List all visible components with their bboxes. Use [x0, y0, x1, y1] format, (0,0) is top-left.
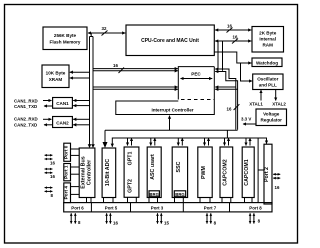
XBUS tap from 32 bus: [90, 34, 92, 37]
CAPCOM2 label: [222, 159, 228, 186]
Port 6 pin count 8: [78, 220, 81, 225]
bus pair2: XBUS to PEC left y87: [93, 86, 178, 88]
stub linking bus lines: [226, 130, 228, 138]
XTAL2 label: [272, 102, 286, 107]
svg-text:and PLL: and PLL: [259, 83, 277, 88]
CPU label: [141, 38, 199, 44]
PEC box: [178, 67, 214, 100]
Port 8 label: [249, 206, 262, 211]
ASC box: [147, 147, 161, 198]
svg-text:Port 8: Port 8: [249, 206, 262, 211]
CAN2_TXD arrow: [44, 124, 53, 126]
tap from RAM bus down b: [222, 42, 224, 71]
PWM box: [198, 147, 212, 198]
ASC BRG label: [149, 192, 159, 197]
svg-text:External Bus: External Bus: [80, 156, 86, 188]
CAN1_TXD arrow: [44, 105, 53, 107]
PWM label: [201, 165, 207, 179]
Port 2 pins symbol: [273, 174, 280, 178]
Port 6 label: [71, 206, 84, 211]
port row divider 3/7: [182, 203, 184, 212]
Port 1 pins symbol: [45, 169, 53, 173]
wire: CAN2 to XBUS lower: [73, 124, 89, 126]
Port 0 to EBC connectors: [71, 149, 80, 155]
svg-text:RAM: RAM: [262, 43, 273, 48]
Port 7 label: [204, 206, 217, 211]
Port 0 box: [64, 143, 71, 161]
voltage regulator box: [256, 109, 287, 126]
Port 3 label: [151, 206, 164, 211]
svg-text:16: 16: [50, 174, 55, 179]
flash memory box: [43, 27, 87, 50]
port row divider 6/5: [90, 203, 92, 212]
ADC label: [105, 159, 111, 187]
XTAL1 label: [249, 102, 263, 107]
bus pair: XBUS to PEC left lower: [93, 70, 178, 72]
svg-text:CAN1: CAN1: [56, 101, 69, 106]
PEC dashed divider: [181, 99, 214, 101]
tick lower: [232, 39, 238, 44]
wire: PEC right lower a: [215, 86, 236, 88]
svg-text:16: 16: [227, 24, 232, 29]
svg-text:Regulator: Regulator: [260, 118, 282, 123]
svg-text:10-Bit ADC: 10-Bit ADC: [105, 159, 111, 187]
SSC label: [176, 161, 182, 172]
peripheral bus lower line: [112, 138, 266, 147]
internal RAM label: [259, 31, 277, 48]
internal RAM box: [252, 27, 284, 53]
wire: CPU to watchdog: [214, 52, 251, 63]
CAPCOM1 to Port8 stubs: [245, 198, 253, 203]
svg-text:15: 15: [164, 221, 169, 226]
tick 16 on right vertical bus: [234, 104, 240, 110]
16 label lower: [233, 35, 238, 40]
svg-text:BRG: BRG: [149, 192, 159, 197]
GPT to ports stubs: [128, 197, 137, 203]
svg-text:Port 5: Port 5: [105, 206, 118, 211]
ports row box: [64, 203, 272, 212]
svg-text:GPT1: GPT1: [128, 152, 134, 166]
svg-text:ASC usart: ASC usart: [150, 154, 156, 180]
EBC label: [80, 156, 92, 188]
svg-text:BRG: BRG: [175, 192, 185, 197]
SSC to Port3 stubs: [175, 198, 184, 203]
svg-text:Interrupt Controller: Interrupt Controller: [151, 107, 193, 112]
svg-text:GPT2: GPT2: [128, 179, 134, 193]
port row divider 7/8: [229, 203, 231, 212]
32 label: [102, 26, 107, 31]
connector pair GPT: [128, 138, 132, 146]
svg-text:Internal: Internal: [259, 37, 276, 42]
svg-text:32: 32: [102, 26, 107, 31]
big arrow into ADC: [103, 130, 108, 148]
tick 16 on XBUS-PEC pair: [119, 68, 125, 74]
wire: CAN2 to XBUS upper: [73, 118, 89, 120]
CAN2 box: [53, 117, 73, 128]
svg-text:16: 16: [233, 35, 238, 40]
ADC to Port5 stubs: [104, 198, 114, 203]
svg-text:Port 2: Port 2: [264, 167, 270, 182]
CAN1_RXD label: [14, 99, 38, 104]
interrupt controller label: [151, 107, 193, 112]
svg-text:Port 7: Port 7: [204, 206, 217, 211]
Port 7 pin count 8: [214, 221, 217, 226]
svg-text:CAN2_TXD: CAN2_TXD: [14, 123, 37, 128]
svg-text:XTAL2: XTAL2: [272, 102, 286, 107]
svg-text:10K Byte: 10K Byte: [46, 71, 66, 76]
wire: PEC right upper pair b: [215, 72, 237, 130]
connector pair CAPCOM2: [225, 138, 229, 146]
connector pair CAPCOM1: [246, 138, 250, 146]
CAN2_RXD label: [14, 117, 38, 122]
PEC label: [191, 72, 201, 77]
connector pair ASC: [151, 138, 155, 146]
port row divider 5/3: [130, 203, 132, 212]
3.3V label: [241, 117, 251, 122]
Port 5 pins symbol: [107, 213, 111, 223]
EBC to Port6 stubs: [87, 198, 92, 203]
CAN1_RXD arrow: [43, 100, 52, 102]
svg-text:XRAM: XRAM: [49, 77, 63, 82]
ADC box: [102, 148, 116, 198]
svg-text:Watchdog: Watchdog: [256, 61, 278, 66]
XRAM box: [42, 65, 69, 88]
wire: CAN1 to XBUS lower: [73, 105, 89, 107]
16 label XBUS-PEC: [113, 63, 118, 68]
EBC box: [79, 148, 95, 198]
XTAL2 output arrow: [275, 90, 277, 101]
Port 1 to EBC connectors: [71, 167, 80, 174]
voltage regulator label: [260, 112, 282, 123]
svg-text:3.3 V: 3.3 V: [241, 117, 251, 122]
SSC BRG label: [175, 192, 185, 197]
CAN2_TXD label: [14, 123, 37, 128]
svg-text:16: 16: [113, 221, 118, 226]
wire: to oscillator: [241, 63, 253, 81]
Port 2 label: [264, 167, 270, 182]
svg-text:256K Byte: 256K Byte: [54, 33, 77, 38]
svg-text:16: 16: [113, 63, 118, 68]
svg-text:16: 16: [50, 160, 55, 165]
svg-text:CAN1_TXD: CAN1_TXD: [14, 104, 37, 109]
svg-text:16: 16: [275, 185, 280, 190]
svg-text:CAN2_RXD: CAN2_RXD: [14, 117, 38, 122]
Port 0 pins symbol: [45, 155, 53, 159]
Port 4 pins symbol: [45, 188, 53, 192]
svg-text:8: 8: [214, 221, 217, 226]
XBUS feeder to port row right: [257, 138, 259, 203]
svg-text:2K Byte: 2K Byte: [259, 31, 277, 36]
arrow up into interrupt controller: [169, 116, 171, 131]
svg-text:CAN2: CAN2: [56, 120, 69, 125]
connector pair SSC: [178, 138, 182, 146]
CAN1 label: [56, 101, 69, 106]
svg-text:SSC: SSC: [176, 161, 182, 172]
Port 2 box: [264, 144, 272, 204]
stub feeder to Port 2: [258, 169, 264, 171]
bus pair: XBUS to PEC left upper: [93, 68, 178, 70]
svg-text:8: 8: [258, 219, 261, 224]
Port 1 box: [64, 164, 71, 181]
svg-text:Port 0: Port 0: [63, 145, 68, 159]
flash memory label: [50, 33, 81, 45]
wire: PEC right lower b: [215, 88, 237, 90]
Port 4 pin count 8: [51, 193, 54, 198]
svg-text:Controller: Controller: [87, 160, 93, 185]
svg-text:16: 16: [227, 107, 232, 112]
bus: flash to CPU 32-bit: [88, 32, 125, 34]
Port 1 label: [63, 165, 68, 179]
wire: XRAM to XBUS lower: [70, 77, 89, 79]
tick upper: [227, 28, 233, 33]
Port 3 pin count 15: [164, 221, 169, 226]
Port 7 pins symbol: [207, 213, 211, 223]
svg-text:Port 4: Port 4: [63, 186, 68, 200]
svg-text:PEC: PEC: [191, 72, 201, 77]
svg-text:Port 6: Port 6: [71, 206, 84, 211]
svg-text:CAPCOM1: CAPCOM1: [244, 159, 250, 186]
svg-text:8: 8: [51, 193, 54, 198]
svg-text:Oscillator: Oscillator: [257, 77, 278, 82]
Port 4 box: [64, 183, 71, 203]
PEC internal bus arrow: [181, 78, 213, 80]
Port 4 to EBC connectors: [71, 187, 80, 195]
16 label upper: [227, 24, 232, 29]
SSC BRG box: [174, 191, 185, 197]
Port 6 pins symbol: [71, 213, 75, 223]
bus: CPU to RAM upper 16: [215, 29, 251, 31]
CPU box U1: [126, 25, 214, 56]
bus: CPU to RAM lower 16: [215, 40, 251, 42]
svg-text:XTAL1: XTAL1: [249, 102, 263, 107]
svg-text:Voltage: Voltage: [263, 112, 280, 117]
GPT2 label: [128, 179, 134, 193]
watchdog box: [252, 58, 282, 67]
oscillator label: [257, 77, 278, 88]
XRAM label: [46, 71, 66, 83]
Port 2 pin count 16: [275, 185, 280, 190]
CAN2_RXD arrow: [43, 118, 52, 120]
ASC to Port3 stubs: [149, 198, 158, 203]
svg-text:CAN1_RXD: CAN1_RXD: [14, 99, 38, 104]
interrupt controller box: [116, 67, 215, 115]
Port 8 pins symbol: [250, 213, 254, 223]
svg-text:CAPCOM2: CAPCOM2: [222, 159, 228, 186]
wire: PEC right upper pair a: [215, 69, 236, 130]
svg-text:Port 3: Port 3: [151, 206, 164, 211]
3.3V supply arrow: [243, 123, 256, 125]
connector pair PWM: [205, 138, 209, 146]
Port 4 label: [63, 186, 68, 200]
watchdog label: [256, 61, 278, 66]
XBUS vertical pair left: [90, 37, 94, 146]
GPT box: [124, 147, 139, 197]
Port 5 pin count 16: [113, 221, 118, 226]
GPT1 label: [128, 152, 134, 166]
CAN2 label: [56, 120, 69, 125]
PWM to Port7 stubs: [200, 198, 210, 203]
oscillator and PLL box: [253, 74, 283, 90]
ASC BRG box: [149, 191, 159, 197]
16 label right vertical bus: [227, 107, 232, 112]
svg-text:CPU-Core and MAC Unit: CPU-Core and MAC Unit: [141, 38, 199, 44]
Port 8 pin count 8: [258, 219, 261, 224]
svg-text:Port 1: Port 1: [63, 165, 68, 179]
CAN1_TXD label: [14, 104, 37, 109]
XBUS left arrowheads into EBC: [88, 144, 95, 148]
tap from RAM bus down a: [217, 42, 219, 69]
bus pair2: XBUS to PEC left y89: [93, 88, 178, 90]
CAN1 box: [53, 98, 73, 109]
Port 0 pin count 16: [50, 160, 55, 165]
wire: CAN1 to XBUS upper: [73, 100, 89, 102]
CAPCOM2 to ports stubs: [222, 198, 231, 203]
CAPCOM1 label: [244, 159, 250, 186]
CAPCOM2 box: [220, 147, 233, 198]
32 bus width tick: [102, 31, 108, 36]
Port 1 pin count 16: [50, 174, 55, 179]
wire: XRAM to XBUS upper: [70, 71, 89, 73]
SSC box: [172, 147, 187, 198]
CAPCOM1 box: [242, 147, 254, 198]
XTAL1 input arrow: [260, 90, 262, 101]
Port 0 label: [63, 145, 68, 159]
ASC label: [150, 154, 156, 180]
peripheral bus upper line: [105, 129, 238, 131]
svg-text:Flash Memory: Flash Memory: [50, 40, 81, 45]
Port 3 pins symbol: [158, 213, 162, 223]
svg-text:8: 8: [78, 220, 81, 225]
Port 5 label: [105, 206, 118, 211]
svg-text:PWM: PWM: [201, 165, 207, 179]
